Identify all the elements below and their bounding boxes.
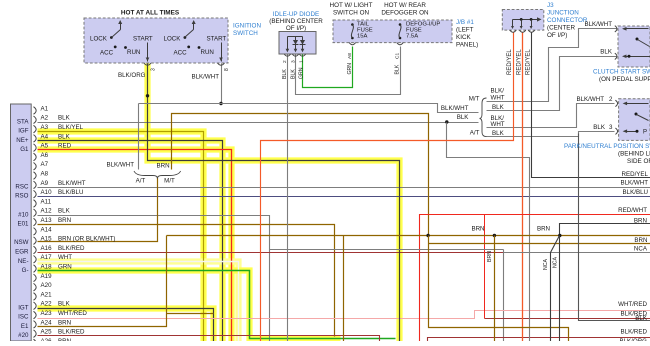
arrowheads at ignition exits: [146, 58, 223, 62]
svg-text:RED: RED: [58, 143, 72, 150]
clutch switch pins: [615, 26, 617, 60]
wire A18 GRN core: [38, 271, 396, 339]
svg-text:NE+: NE+: [16, 137, 29, 144]
svg-text:BLK/RED: BLK/RED: [58, 245, 85, 252]
ECM connector block: [11, 104, 32, 341]
wire BLK/ORG from ignition switch core: [148, 64, 400, 342]
svg-text:BLK/WHT: BLK/WHT: [106, 162, 134, 169]
svg-text:BLK/WHT: BLK/WHT: [620, 179, 648, 186]
ignition switch box: [84, 18, 228, 63]
svg-text:BLK: BLK: [58, 133, 71, 140]
svg-text:(ON PEDAL SUPPO: (ON PEDAL SUPPO: [599, 76, 650, 83]
svg-text:CONNECTOR: CONNECTOR: [547, 17, 588, 24]
svg-text:START: START: [133, 36, 153, 43]
wire NCA gray to right edge: [503, 250, 505, 342]
svg-text:2: 2: [282, 60, 288, 63]
pin A13: [34, 217, 72, 226]
junction A2 BLK: [445, 120, 448, 123]
pin A16: [34, 245, 86, 254]
fuse box pins: [349, 43, 403, 45]
svg-text:#10: #10: [18, 211, 29, 218]
pin A23: [34, 310, 88, 319]
svg-text:BLK: BLK: [600, 49, 613, 56]
label J3 JUNCTION CONNECTOR: [547, 2, 588, 39]
label PARK/NEUTRAL POSITION SWITCH: [564, 143, 650, 165]
pin A25: [34, 329, 86, 338]
svg-text:BRN: BRN: [487, 251, 493, 262]
wire start run stub right: [221, 43, 223, 62]
pin A24: [34, 319, 72, 328]
svg-text:BRN: BRN: [58, 319, 71, 326]
svg-text:IGF: IGF: [18, 128, 29, 135]
svg-text:JUNCTION: JUNCTION: [547, 10, 579, 17]
svg-text:KICK: KICK: [456, 34, 471, 41]
junction BLK/WHT ignition: [219, 102, 222, 105]
J3 internals: [511, 17, 542, 29]
pin A1: [34, 105, 49, 114]
wire BRN short to right edge: [560, 224, 650, 236]
wire BLK/WHT A/T to park/neutral pin 2: [487, 104, 615, 128]
svg-text:SWITCH: SWITCH: [233, 30, 258, 37]
idle-up diode pins: [284, 54, 306, 56]
svg-text:BLK/WHT: BLK/WHT: [584, 21, 612, 28]
label C1 BLK: [395, 53, 401, 75]
wire NCA 1 diagonal: [551, 236, 560, 342]
svg-text:A13: A13: [41, 217, 53, 224]
park/neutral pins: [615, 100, 617, 134]
label BLK/WHT A/T stacked: [491, 115, 505, 128]
label IGNITION SWITCH: [233, 23, 261, 38]
wire A25 BLK/RED left segment: [38, 336, 380, 342]
label BLK 2: [282, 60, 288, 79]
svg-text:RSC: RSC: [15, 183, 29, 190]
highlight band A22 BLK wire: [38, 309, 214, 342]
pin A2: [34, 115, 71, 124]
svg-text:A7: A7: [41, 161, 49, 168]
pin A11: [34, 198, 52, 207]
svg-text:CLUTCH START SWIT: CLUTCH START SWIT: [593, 69, 650, 76]
pin A8: [34, 171, 49, 180]
svg-text:A24: A24: [41, 319, 53, 326]
svg-text:LOCK: LOCK: [90, 36, 108, 43]
clutch start switch internals: [622, 27, 650, 58]
wire A15 BRN (OR BLK/WHT) to A/T-M/T brace riser: [38, 177, 158, 242]
svg-text:BLK: BLK: [58, 301, 71, 308]
wire A2 BLK to junction and A/T-M/T brace: [38, 122, 479, 124]
svg-text:A8: A8: [41, 171, 49, 178]
svg-text:A21: A21: [41, 291, 53, 298]
svg-text:A4: A4: [41, 133, 49, 140]
svg-text:2: 2: [609, 96, 613, 103]
svg-text:SWITCH ON: SWITCH ON: [333, 9, 369, 16]
svg-text:BRN: BRN: [634, 217, 647, 224]
svg-text:A1: A1: [41, 105, 49, 112]
wire A4 BLK core: [38, 141, 223, 342]
wire start run stub left: [147, 43, 149, 62]
svg-text:8: 8: [224, 68, 230, 71]
junction on BLK/ORG: [146, 94, 149, 97]
label BLK 3: [593, 124, 613, 131]
wire A22 BLK core: [38, 309, 214, 342]
svg-text:BLK/WHT: BLK/WHT: [191, 74, 219, 81]
svg-text:NCA: NCA: [634, 246, 648, 253]
wire BRN drop from bus x343.7: [343, 236, 345, 342]
svg-text:RSO: RSO: [15, 193, 29, 200]
svg-text:A6: A6: [41, 152, 49, 159]
svg-text:WHT: WHT: [58, 254, 72, 261]
svg-text:PARK/NEUTRAL POSITION SWIT: PARK/NEUTRAL POSITION SWIT: [564, 143, 650, 150]
svg-text:ACC: ACC: [174, 50, 188, 57]
svg-text:IDLE-UP DIODE: IDLE-UP DIODE: [273, 11, 319, 18]
wire BLK/WHT from ignition switch: [221, 64, 223, 104]
label J/B no.1: [456, 19, 478, 49]
svg-text:BLK: BLK: [593, 124, 606, 131]
svg-text:RED/YEL: RED/YEL: [526, 49, 532, 75]
svg-text:G1: G1: [20, 146, 29, 153]
svg-text:15A: 15A: [357, 34, 368, 40]
svg-text:G-: G-: [22, 267, 29, 274]
svg-text:NSW: NSW: [14, 239, 29, 246]
J/B no.1 box: [333, 20, 452, 43]
svg-text:A3: A3: [41, 124, 49, 131]
label BLK/WHT 2: [576, 96, 613, 103]
svg-text:A14: A14: [41, 226, 53, 233]
svg-text:3: 3: [290, 60, 296, 63]
svg-text:HOT AT ALL TIMES: HOT AT ALL TIMES: [121, 10, 180, 17]
svg-text:BRN: BRN: [634, 237, 647, 244]
label GRN 1: [298, 60, 304, 79]
svg-text:OF I/P): OF I/P): [286, 25, 306, 32]
wire dark drop x484: [484, 215, 486, 319]
svg-text:BLK/BLU: BLK/BLU: [58, 189, 83, 196]
park/neutral position switch box: [619, 99, 650, 141]
highlight band A18 GRN wire: [38, 271, 341, 339]
label CLUTCH START SWITCH: [593, 69, 650, 84]
svg-text:J/B #1: J/B #1: [456, 19, 474, 26]
highlight band A4 BLK wire: [38, 141, 223, 342]
pin A20: [34, 282, 53, 291]
wire A10 BLK/BLU full width: [38, 196, 650, 198]
highlight band A3 BLK/YEL wire: [38, 132, 204, 342]
svg-text:A16: A16: [41, 245, 53, 252]
svg-text:BLK: BLK: [395, 64, 401, 74]
svg-text:NE-: NE-: [18, 258, 29, 265]
pin A6: [34, 152, 49, 161]
svg-text:SIDE OF: SIDE OF: [627, 158, 650, 165]
svg-text:E1: E1: [21, 323, 29, 330]
wire BLK/RED from x484 to right edge: [485, 318, 650, 320]
svg-text:A/T: A/T: [136, 177, 146, 184]
svg-text:ISC: ISC: [18, 314, 29, 321]
svg-text:STA: STA: [17, 118, 29, 125]
J3 pins: [510, 30, 535, 32]
svg-text:A10: A10: [41, 189, 53, 196]
svg-text:BLK: BLK: [58, 208, 71, 215]
svg-text:A/T: A/T: [470, 130, 480, 137]
pin A22: [34, 301, 71, 310]
svg-text:A12: A12: [41, 208, 53, 215]
wire BLK A/T to park/neutral pin 3: [487, 132, 615, 137]
svg-text:A11: A11: [41, 198, 52, 205]
svg-text:(BEHIND LE: (BEHIND LE: [618, 151, 650, 158]
pin A17: [34, 254, 73, 263]
pin A3: [34, 124, 84, 133]
svg-text:RED/WHT: RED/WHT: [618, 207, 647, 214]
svg-text:C1: C1: [395, 53, 401, 59]
svg-text:A19: A19: [41, 273, 53, 280]
svg-text:A18: A18: [41, 264, 53, 271]
svg-text:BLK: BLK: [492, 104, 505, 111]
label HOT W/ LIGHT SWITCH ON: [330, 2, 373, 16]
wire RED/YEL J3 leg2 full descent: [522, 33, 524, 342]
svg-text:A23: A23: [41, 310, 53, 317]
svg-text:BLK: BLK: [457, 114, 470, 121]
svg-text:GRN: GRN: [298, 67, 304, 79]
svg-text:J3: J3: [547, 2, 554, 9]
svg-text:E01: E01: [17, 221, 29, 228]
svg-text:A8: A8: [347, 53, 353, 59]
ignition switch contacts left: [90, 20, 153, 57]
svg-text:BLK/WHT: BLK/WHT: [576, 96, 604, 103]
svg-text:3: 3: [609, 124, 613, 131]
svg-text:1: 1: [298, 60, 304, 63]
wire BRN lower elbow run: [429, 236, 569, 342]
svg-text:BLK/WHT: BLK/WHT: [441, 105, 469, 112]
wire BLK/WHT M/T to clutch start switch: [487, 29, 617, 102]
wire gray branch y249: [270, 249, 504, 251]
svg-text:M/T: M/T: [164, 177, 175, 184]
wire BLK branch down-right: [447, 123, 530, 342]
svg-text:3: 3: [151, 68, 157, 71]
svg-text:BLK: BLK: [282, 69, 288, 79]
clutch start switch box: [618, 26, 650, 67]
wire A9 BLK/WHT full width: [38, 187, 650, 189]
svg-text:OF I/P): OF I/P): [547, 32, 567, 39]
ignition switch contacts right: [164, 20, 227, 57]
svg-text:IGNITION: IGNITION: [233, 23, 261, 30]
svg-text:7.5A: 7.5A: [406, 34, 418, 40]
pin A21: [34, 291, 53, 300]
highlight band A5 RED wire: [38, 150, 232, 342]
pin A18: [34, 264, 72, 273]
wire BLK/RED right segment: [428, 338, 650, 342]
svg-text:M/T: M/T: [469, 95, 480, 102]
brace A/T M/T near ECM: [134, 171, 181, 184]
highlight band BLK/ORG wire: [148, 64, 400, 342]
svg-text:HOT W/ LIGHT: HOT W/ LIGHT: [330, 2, 373, 9]
svg-text:RED/YEL: RED/YEL: [507, 49, 513, 75]
pin A7: [34, 161, 49, 170]
wire NCA 2: [559, 236, 561, 342]
svg-text:A17: A17: [41, 254, 53, 261]
wire BLK M/T to clutch start switch: [487, 57, 617, 111]
svg-text:A2: A2: [41, 115, 49, 122]
pin A19: [34, 273, 53, 282]
svg-text:WHT: WHT: [491, 121, 505, 128]
junction BRN bus x560: [558, 234, 561, 237]
svg-text:BLK: BLK: [58, 115, 71, 122]
wire A16 BLK/RED to NCA: [38, 252, 504, 254]
svg-text:RED/YEL: RED/YEL: [622, 171, 649, 178]
svg-text:RUN: RUN: [201, 49, 214, 56]
highlight band A17 WHT wire: [38, 262, 239, 342]
wire NCA horizontal right: [504, 252, 650, 254]
svg-text:WHT: WHT: [491, 95, 505, 102]
ignition pin 3: [144, 63, 151, 65]
J3 junction connector box: [502, 10, 544, 31]
svg-text:BLK/RED: BLK/RED: [621, 329, 648, 336]
svg-text:BRN: BRN: [58, 217, 71, 224]
svg-text:START: START: [207, 36, 227, 43]
svg-text:(CENTER: (CENTER: [547, 25, 575, 32]
junction BRN bus x428: [426, 234, 429, 237]
svg-text:WHT/RED: WHT/RED: [58, 310, 87, 317]
svg-text:WHT/RED: WHT/RED: [618, 301, 647, 308]
svg-text:RUN: RUN: [127, 49, 140, 56]
svg-text:ACC: ACC: [100, 50, 114, 57]
wire BLK/WHT horizontal run with step to far brace: [139, 104, 479, 113]
svg-text:EGR: EGR: [15, 249, 29, 256]
wire A12 BLK to descent x269: [38, 216, 270, 342]
svg-text:PANEL): PANEL): [456, 42, 478, 49]
wire A13 BRN to descent x334.8: [38, 225, 335, 337]
label BLK 3: [290, 60, 296, 79]
junction BRN bus x494: [493, 234, 496, 237]
wire BLK elbow to right edge: [579, 134, 650, 321]
idle-up diode internals: [286, 37, 306, 53]
wire BLK/WHT descent to A/T label: [138, 104, 140, 170]
svg-text:BLK/: BLK/: [491, 88, 505, 95]
svg-text:GRN: GRN: [347, 63, 353, 75]
svg-text:A15: A15: [41, 236, 53, 243]
svg-text:BRN (OR BLK/WHT): BRN (OR BLK/WHT): [58, 236, 115, 243]
brace M/T A/T far: [469, 95, 487, 136]
pin A4: [34, 133, 71, 142]
svg-text:A25: A25: [41, 329, 53, 336]
svg-text:BLK/BLU: BLK/BLU: [623, 189, 648, 196]
ignition pin 8: [218, 63, 225, 65]
pin A5: [34, 143, 72, 152]
svg-text:BRN: BRN: [471, 226, 484, 233]
svg-text:P: P: [643, 130, 647, 136]
svg-text:HOT W/ REAR: HOT W/ REAR: [384, 2, 426, 9]
wire RED/YEL J3 leg3 to right edge: [532, 33, 650, 178]
wire A23 WHT/RED with step up to right edge: [38, 311, 650, 319]
wire BRN bus: [167, 235, 650, 237]
svg-text:BLK/WHT: BLK/WHT: [58, 180, 86, 187]
svg-text:A22: A22: [41, 301, 53, 308]
wire RED/WHT to right edge: [420, 215, 650, 342]
wire BRN y243.5 to right edge: [429, 243, 650, 245]
label HOT W/ REAR DEFOGGER ON: [381, 2, 429, 16]
svg-text:A20: A20: [41, 282, 53, 289]
svg-text:NCA: NCA: [543, 259, 549, 270]
svg-text:GRN: GRN: [58, 264, 72, 271]
park/neutral switch internals: [623, 102, 649, 136]
wire A24 branch to A22 descent: [167, 313, 214, 315]
label BLK/WHT M/T stacked: [491, 88, 505, 102]
pin A10: [34, 189, 84, 198]
svg-text:RED/YEL: RED/YEL: [516, 49, 522, 75]
wire A5 RED core: [38, 150, 232, 342]
pin A14: [34, 226, 53, 235]
svg-text:(LEFT: (LEFT: [456, 27, 474, 34]
svg-text:BLK: BLK: [492, 130, 505, 137]
svg-text:BLK/RED: BLK/RED: [58, 329, 85, 336]
svg-text:DEFOGGER ON: DEFOGGER ON: [381, 9, 429, 16]
svg-text:(BEHIND CENTER: (BEHIND CENTER: [269, 18, 323, 25]
svg-text:BRN: BRN: [157, 163, 170, 170]
wire A24 BRN riser to BRN bus: [38, 236, 167, 327]
svg-text:BLK: BLK: [290, 69, 296, 79]
fuse DEFOG-I/UP 7.5A: [399, 23, 402, 39]
svg-text:BLK: BLK: [635, 315, 648, 322]
svg-text:BRN: BRN: [537, 226, 550, 233]
svg-text:LOCK: LOCK: [164, 36, 182, 43]
wire BLK 2 from idle-up diode full descent: [287, 55, 289, 342]
wire GRN 1 from idle-up diode to TAIL fuse: [303, 47, 353, 88]
svg-text:BLK/ORG: BLK/ORG: [118, 72, 146, 79]
wire A17 WHT core: [38, 262, 239, 342]
svg-text:A9: A9: [41, 180, 49, 187]
wire A3 BLK/YEL core: [38, 132, 204, 342]
pin A9: [34, 180, 86, 189]
wire RED/YEL J3 leg1 to descent x260.3: [261, 33, 514, 342]
idle-up diode title: [269, 11, 323, 32]
svg-text:BLK/YEL: BLK/YEL: [58, 124, 84, 131]
pin A26: [34, 338, 72, 346]
wire BLK 3 from idle-up diode to DEFOG fuse: [296, 47, 401, 95]
svg-text:IGT: IGT: [18, 304, 29, 311]
label A8 GRN: [347, 53, 353, 75]
svg-text:A5: A5: [41, 143, 49, 150]
wire BRN drop from bus x494: [494, 236, 496, 342]
wire BRN M/T riser and run to bus: [172, 114, 429, 236]
idle-up diode box: [279, 32, 316, 55]
svg-text:#20: #20: [18, 332, 29, 339]
pin A15: [34, 236, 116, 245]
pin A12: [34, 208, 71, 217]
fuse TAIL 15A: [351, 23, 354, 39]
svg-text:NCA: NCA: [553, 257, 559, 268]
